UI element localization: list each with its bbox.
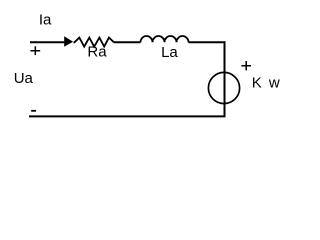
svg-text:Ra: Ra <box>87 44 107 61</box>
svg-text:Ua: Ua <box>14 70 34 87</box>
svg-text:w: w <box>268 74 280 91</box>
svg-text:K: K <box>252 74 262 91</box>
svg-text:La: La <box>161 44 178 61</box>
svg-text:Ia: Ia <box>39 11 52 28</box>
